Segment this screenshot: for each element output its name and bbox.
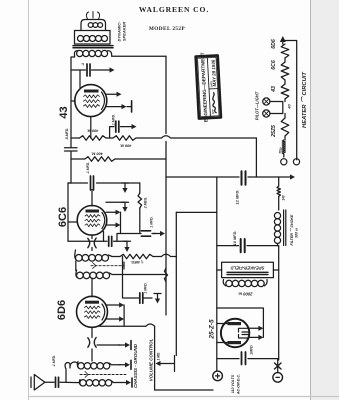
coil IF sec bbox=[76, 270, 77, 278]
ground arrow 202 bbox=[122, 202, 129, 207]
svg-text:.1 MFD.: .1 MFD. bbox=[86, 162, 90, 174]
resistor 400M a bbox=[80, 136, 107, 141]
tube 43 grid cap bar bbox=[131, 101, 133, 112]
tube 6D6 plate bbox=[85, 301, 99, 304]
svg-text:400 M.: 400 M. bbox=[120, 144, 133, 148]
avc dashed 1 bbox=[91, 265, 124, 267]
arrow B+ right bbox=[279, 176, 290, 178]
wire 6C6 grid lead bbox=[91, 190, 93, 207]
wire row1 mid bbox=[106, 137, 113, 139]
wire 43 plate lead bbox=[79, 70, 81, 88]
wire left rail top bbox=[71, 57, 75, 147]
tube 6D6 cathode arc bbox=[102, 304, 105, 320]
tube 6C6 bracket bbox=[120, 212, 122, 233]
resistor grid leak A bbox=[164, 268, 167, 282]
tube 6C6 arrow 1 bbox=[106, 211, 116, 213]
terminal minus bbox=[273, 373, 283, 383]
svg-text:400 M.: 400 M. bbox=[87, 129, 100, 133]
svg-text:10 MFD.: 10 MFD. bbox=[232, 231, 237, 246]
transformer core bbox=[73, 46, 113, 48]
capacitor padder 6C6 bbox=[88, 238, 96, 248]
wire choke bottom bbox=[278, 244, 279, 361]
svg-text:43: 43 bbox=[58, 106, 70, 118]
arrow row1 cap bbox=[121, 126, 132, 128]
wire row2 bbox=[71, 158, 166, 160]
svg-text:PILOT—LIGHT: PILOT—LIGHT bbox=[255, 91, 260, 120]
svg-text:2000 ω: 2000 ω bbox=[238, 292, 253, 297]
wire secondary to node A bbox=[112, 55, 166, 57]
wire volume rail bbox=[155, 326, 213, 390]
capacitor .1 MFD 183 bbox=[91, 176, 94, 190]
wire left rail mid bbox=[68, 159, 71, 241]
tube 6C6 envelope bbox=[77, 206, 107, 236]
arrow plate 43 bbox=[107, 69, 110, 71]
tube 43 grid arrow 1 bbox=[107, 93, 117, 95]
wire vertical B bbox=[175, 212, 177, 355]
svg-text:SPEAKER-FIELD: SPEAKER-FIELD bbox=[231, 266, 265, 271]
tube 43 plate bbox=[84, 90, 99, 93]
filter choke bbox=[274, 213, 280, 219]
wire 10MFD bbox=[217, 245, 279, 247]
tube 25Z5 stubs bbox=[217, 324, 228, 343]
wire output bbox=[217, 358, 278, 360]
wire grid 6D6 bbox=[91, 327, 93, 361]
speaker voice coil enclosure bbox=[81, 20, 106, 31]
capacitor 1 MFD bbox=[141, 231, 150, 236]
capacitor .1 top bbox=[87, 64, 90, 76]
paper edge right bbox=[311, 0, 339, 400]
svg-text:MODEL 252P: MODEL 252P bbox=[149, 26, 186, 32]
svg-text:SPEAKER: SPEAKER bbox=[122, 22, 127, 41]
tube 43 cathode arc bbox=[102, 92, 105, 110]
heater top arrow bbox=[282, 42, 284, 44]
svg-text:.1: .1 bbox=[81, 63, 85, 66]
pilot lights bbox=[270, 102, 283, 114]
ground arrow 183 bbox=[122, 183, 129, 188]
wire 6D6 bottom bbox=[99, 324, 155, 326]
heater resistor 6C6 bbox=[284, 58, 286, 62]
coil IF pri bbox=[74, 250, 77, 259]
capacitor ant bbox=[56, 377, 59, 387]
speaker field box bbox=[222, 262, 274, 277]
wire cap row 43 bbox=[71, 69, 107, 71]
dashed gang line bbox=[80, 374, 126, 376]
resistor 140 bbox=[278, 177, 280, 186]
wire to 1MFD bbox=[117, 234, 156, 242]
speaker voice coil bbox=[88, 23, 93, 28]
ground arrow osc bbox=[154, 294, 161, 299]
tube 25Z5 plate bottom bbox=[228, 341, 242, 344]
fuse X bbox=[275, 363, 282, 369]
capacitor .5 MFD rail bbox=[65, 147, 78, 160]
tube 43 envelope bbox=[75, 85, 107, 117]
volume wiper bbox=[174, 356, 176, 372]
stamp ENGINEERING DEPARTMENT bbox=[195, 51, 221, 122]
transformer secondary coil bbox=[75, 51, 78, 57]
heater wire top bbox=[283, 41, 297, 160]
svg-text:VOLUME CONTROL: VOLUME CONTROL bbox=[149, 338, 154, 381]
tube 25Z5 arrow 2 bbox=[250, 336, 259, 338]
svg-text:HEATER ⌒ CIRCUIT: HEATER ⌒ CIRCUIT bbox=[300, 72, 308, 128]
paper edge left bbox=[28, 0, 30, 400]
tube 25Z5 plate top bbox=[228, 322, 242, 325]
wire 6C6 cathode lead bbox=[103, 232, 105, 242]
svg-text:70ω: 70ω bbox=[279, 147, 283, 154]
tube 43 grid arrow 2 bbox=[107, 106, 122, 108]
ground arrow coil4 bbox=[121, 382, 126, 384]
capacitor 1 MFD out bbox=[242, 352, 246, 365]
svg-text:2 MEG.: 2 MEG. bbox=[144, 197, 148, 210]
transformer primary box bbox=[75, 31, 111, 45]
heater resistor 43 bbox=[284, 80, 286, 84]
capacitor padder 6D6 bbox=[88, 337, 96, 347]
wire row1 left bbox=[71, 137, 80, 139]
wire 6C6 rail stub bbox=[68, 221, 77, 223]
svg-text:300 ω: 300 ω bbox=[295, 228, 299, 238]
tube 6D6 envelope bbox=[77, 296, 108, 327]
wire vertical C bbox=[216, 177, 218, 371]
resistor 2 MEG bbox=[139, 183, 141, 193]
speaker field coil bbox=[223, 280, 226, 286]
wire 43 cathode lead bbox=[90, 117, 92, 138]
wire screen 6C6 bbox=[106, 201, 125, 203]
paper edge bottom bbox=[29, 396, 339, 398]
tube 6D6 arrow 1 bbox=[106, 304, 120, 306]
ground arrow 345 bbox=[97, 344, 120, 346]
wire row 183 bbox=[68, 182, 140, 184]
capacitor cathode 6C6 bbox=[109, 236, 112, 246]
stub row1 cap bbox=[110, 127, 114, 138]
heater resistor 25Z5 bbox=[284, 114, 286, 119]
svg-text:1 MFD.: 1 MFD. bbox=[144, 282, 148, 293]
tube 6D6 bracket bbox=[123, 305, 125, 326]
svg-text:.1 MFD.: .1 MFD. bbox=[52, 355, 56, 367]
svg-text:12 MFD.: 12 MFD. bbox=[235, 190, 240, 205]
wire osc dropper bbox=[123, 257, 153, 299]
svg-text:1MFD: 1MFD bbox=[250, 345, 254, 355]
heater resistor 6D6 bbox=[281, 44, 289, 58]
svg-text:WALGREEN CO.: WALGREEN CO. bbox=[139, 5, 209, 14]
tube 25Z5 envelope bbox=[221, 319, 249, 347]
transformer primary coil bbox=[78, 36, 84, 42]
svg-text:140: 140 bbox=[282, 195, 286, 201]
tube 6D6 grids bbox=[85, 306, 101, 309]
capacitor .1 MFD row1 bbox=[116, 121, 119, 132]
tube 25Z5 arrow 1 bbox=[250, 327, 259, 329]
ground arrow coil3 bbox=[120, 364, 125, 366]
wire 43 rail stub bbox=[71, 100, 75, 102]
tube 25Z5 cathodes bbox=[239, 328, 250, 338]
terminal plus bbox=[213, 371, 223, 381]
svg-text:6C6: 6C6 bbox=[57, 207, 69, 227]
wire IF coil join bbox=[75, 261, 77, 271]
svg-text:6C6: 6C6 bbox=[271, 60, 277, 70]
wire quarter meg row bbox=[112, 254, 176, 256]
svg-text:AC-OR-D.C.: AC-OR-D.C. bbox=[237, 374, 241, 395]
svg-text:FILTER ⌒ CHOKE: FILTER ⌒ CHOKE bbox=[289, 214, 294, 245]
svg-text:¼ MEG.: ¼ MEG. bbox=[130, 260, 143, 264]
svg-text:MAY 28: MAY 28 bbox=[211, 70, 217, 87]
ground arrow cathode bbox=[124, 241, 131, 247]
tube 6C6 cathode arc bbox=[102, 213, 105, 229]
svg-text:110 VOLTS: 110 VOLTS bbox=[231, 374, 235, 393]
svg-text:CHASSIS - GROUND: CHASSIS - GROUND bbox=[133, 343, 138, 388]
capacitor 12 MFD bbox=[242, 171, 246, 185]
antenna bbox=[31, 375, 45, 391]
svg-text:25Z5: 25Z5 bbox=[271, 125, 277, 138]
wire C to 25Z5 top bbox=[217, 308, 264, 337]
capacitor 10 MFD bbox=[241, 239, 245, 252]
wire vertical A bbox=[165, 56, 167, 315]
wire antenna bbox=[45, 381, 80, 383]
svg-text:25-Z-5: 25-Z-5 bbox=[209, 319, 216, 340]
resistor 400M c bbox=[85, 157, 115, 162]
svg-text:1936: 1936 bbox=[211, 59, 217, 70]
wire grid cap 6C6 bbox=[91, 235, 93, 250]
coil ant pri bbox=[79, 380, 80, 386]
wire right rail bottom bbox=[277, 359, 279, 373]
wire 6D6 grid lead bbox=[91, 278, 93, 297]
heater terminal 1 bbox=[281, 159, 287, 165]
wire B to C bbox=[176, 211, 217, 213]
speaker cone marks bbox=[86, 12, 99, 19]
svg-text:1 MFD.: 1 MFD. bbox=[150, 216, 154, 227]
wire row1 drop bbox=[255, 138, 257, 177]
arrow 1MFD to A bbox=[152, 233, 160, 235]
svg-text:43: 43 bbox=[271, 86, 277, 93]
wire ant riser bbox=[65, 362, 78, 382]
tube 6D6 arrow 2 bbox=[106, 318, 120, 320]
svg-text:6D6: 6D6 bbox=[271, 39, 277, 49]
tube 6C6 grids bbox=[85, 215, 100, 218]
resistor 1/4 MEG bbox=[120, 254, 153, 258]
heater resistor 70 bbox=[284, 136, 286, 140]
wire cathode 6C6 bbox=[68, 240, 127, 242]
capacitor 1 MFD osc bbox=[140, 293, 143, 303]
svg-text:.1 MFD.: .1 MFD. bbox=[112, 114, 116, 126]
svg-text:.5-MFD.: .5-MFD. bbox=[65, 128, 69, 140]
heater terminal 2 bbox=[293, 159, 299, 165]
resistor 400M b bbox=[113, 136, 136, 141]
tube 43 grids bbox=[84, 95, 100, 98]
svg-text:400 M.: 400 M. bbox=[91, 152, 104, 156]
coil ant sec bbox=[77, 362, 78, 369]
wire row1 right bbox=[136, 136, 256, 138]
wire B+ line bbox=[166, 176, 279, 178]
svg-text:6D6: 6D6 bbox=[56, 300, 68, 320]
tube 6C6 plate bbox=[86, 210, 100, 213]
svg-text:1 MΩ: 1 MΩ bbox=[157, 352, 161, 360]
svg-text:40: 40 bbox=[288, 104, 292, 110]
tube 6C6 arrow 2 bbox=[106, 224, 116, 226]
